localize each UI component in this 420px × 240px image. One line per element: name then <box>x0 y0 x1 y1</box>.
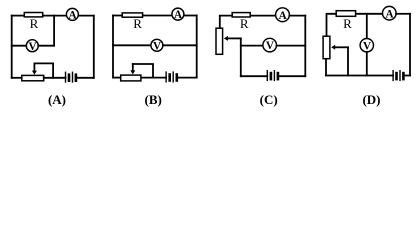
ammeter A2 (circuit B) <box>172 8 184 20</box>
battery (circuit A) <box>65 72 67 82</box>
wire: wiper down to bottom (circuit C) <box>240 38 242 76</box>
svg-text:A: A <box>69 10 77 22</box>
battery (circuit D) <box>392 71 394 81</box>
resistor R (circuit B) <box>122 13 142 17</box>
wire: B bottom right segment <box>178 77 197 79</box>
wire: C bottom right segment <box>279 75 305 77</box>
rheostat (circuit B) <box>121 75 141 81</box>
wire: voltmeter down to bottom (circuit D) <box>366 52 368 76</box>
wire: A bottom right segment <box>77 77 94 79</box>
rheostat wiper arrow (circuit A) <box>33 63 35 71</box>
svg-text:A: A <box>174 9 182 21</box>
voltmeter V2 (circuit B) <box>151 39 163 51</box>
wire: A top left segment <box>12 15 24 17</box>
svg-text:(C): (C) <box>260 92 278 107</box>
voltmeter V4 (circuit D) <box>360 39 373 52</box>
resistor R (circuit D) <box>336 11 355 17</box>
wire: voltmeter branch left (circuit A) <box>12 45 27 47</box>
svg-text:(D): (D) <box>362 92 380 107</box>
svg-text:V: V <box>153 40 161 52</box>
wire: wiper link up and over (circuit B) <box>133 64 153 78</box>
rheostat (circuit A) <box>22 75 44 80</box>
wire: B left vertical <box>112 16 114 78</box>
wire: wiper down to bottom (circuit D) <box>347 47 349 75</box>
wire: C bottom left segment <box>241 75 267 77</box>
svg-text:A: A <box>385 8 393 20</box>
wire: D top middle segment <box>356 13 382 15</box>
wire: D top right segment <box>396 13 410 15</box>
rheostat wiper arrow (circuit D) <box>331 45 335 50</box>
wire: voltmeter branch left (circuit B) <box>113 44 151 46</box>
node: junction on top wire down to voltmeter (circuit D) <box>366 14 368 39</box>
wire: voltmeter branch right (circuit C) <box>277 45 306 47</box>
wire: C top left corner into rheostat <box>220 16 232 28</box>
wire: B top middle segment <box>143 15 172 17</box>
wire: A top middle segment <box>44 15 67 17</box>
wire: D top left corner into rheostat <box>327 14 336 36</box>
wire: A bottom middle segment <box>44 77 66 79</box>
wire: voltmeter branch left (circuit C) <box>241 45 263 47</box>
ammeter A4 (circuit D) <box>383 6 397 20</box>
node: junction between R and A1, wire down to voltmeter branch <box>53 16 55 46</box>
svg-text:(A): (A) <box>48 92 66 107</box>
wire: B top left segment <box>113 15 122 17</box>
svg-text:A: A <box>279 10 287 22</box>
wire: C top right segment <box>289 15 305 17</box>
rheostat wiper arrow (circuit C) <box>224 36 228 41</box>
svg-text:R: R <box>133 16 142 31</box>
wire: D bottom left segment <box>326 75 393 77</box>
voltmeter V3 (circuit C) <box>263 38 277 52</box>
wire: wiper link up and over (circuit A) <box>34 63 53 77</box>
wire: B bottom middle segment <box>142 77 167 79</box>
battery (circuit B) <box>165 72 167 82</box>
svg-text:V: V <box>266 40 274 52</box>
wire: B top right segment <box>184 15 197 17</box>
wire: D bottom right segment <box>405 75 410 77</box>
wire: C right vertical <box>304 16 306 77</box>
wire: voltmeter branch right (circuit B) <box>163 44 197 46</box>
resistor R (circuit C) <box>232 13 250 17</box>
wire: D left vertical below rheostat <box>325 59 327 75</box>
wire: A right vertical <box>93 16 95 78</box>
wire: A left vertical <box>11 16 13 78</box>
wire: A top right segment <box>78 15 93 17</box>
wire: C top middle segment <box>251 15 276 17</box>
rheostat vertical (circuit C) <box>216 28 223 54</box>
wire: A bottom left segment <box>12 77 22 79</box>
rheostat vertical (circuit D) <box>323 36 330 59</box>
rheostat wiper arrow (circuit B) <box>132 64 134 71</box>
ammeter A1 (circuit A) <box>66 8 78 20</box>
wire: D right vertical <box>409 14 411 76</box>
wire: voltmeter branch right (circuit A) <box>38 45 54 47</box>
wire: B right vertical <box>196 16 198 78</box>
svg-text:(B): (B) <box>145 92 162 107</box>
resistor R (circuit A) <box>24 13 42 17</box>
svg-text:R: R <box>240 16 249 31</box>
wire: B bottom left segment <box>113 77 121 79</box>
svg-text:R: R <box>343 16 352 31</box>
battery (circuit C) <box>266 71 268 81</box>
svg-text:R: R <box>30 16 39 31</box>
svg-text:V: V <box>28 41 36 53</box>
ammeter A3 (circuit C) <box>276 8 290 22</box>
svg-text:V: V <box>363 40 371 52</box>
voltmeter V1 (circuit A) <box>26 40 38 52</box>
